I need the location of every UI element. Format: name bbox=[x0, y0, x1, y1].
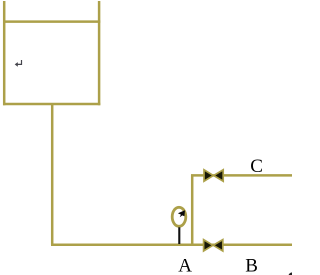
svg-text:A: A bbox=[178, 256, 192, 275]
svg-text:C: C bbox=[250, 156, 263, 177]
svg-text:B: B bbox=[245, 256, 258, 275]
